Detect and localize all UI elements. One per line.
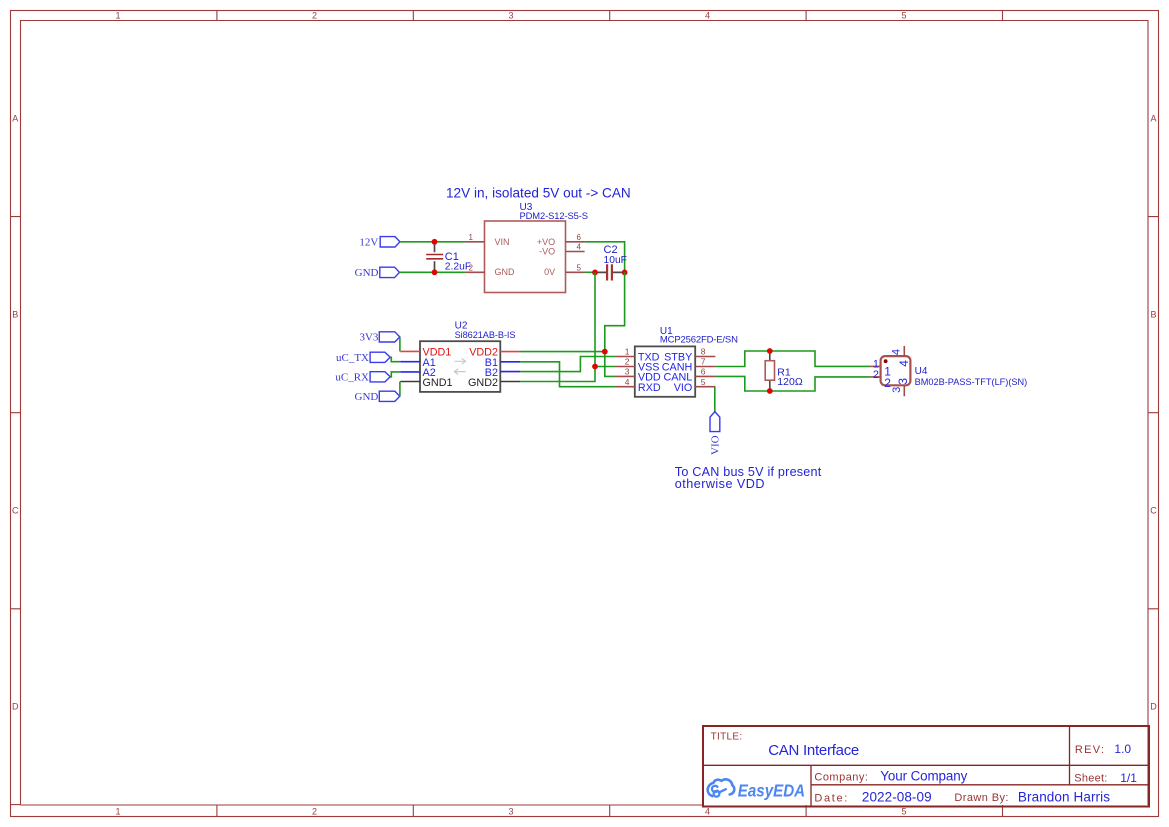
svg-text:Brandon Harris: Brandon Harris xyxy=(1018,790,1110,805)
svg-text:GND1: GND1 xyxy=(423,377,453,389)
svg-text:3: 3 xyxy=(508,11,513,21)
U2 direction arrows xyxy=(454,358,465,374)
svg-text:12V: 12V xyxy=(359,236,378,248)
svg-text:B: B xyxy=(12,310,18,320)
label U3 name xyxy=(520,202,588,221)
wire 12V to U3 pin1 xyxy=(400,241,466,243)
resistor R1 xyxy=(765,351,774,391)
connector U4 xyxy=(881,356,911,390)
wire U3 +VO to 5V rail xyxy=(585,242,625,273)
svg-text:4: 4 xyxy=(897,360,911,367)
port 12V xyxy=(359,236,400,248)
svg-text:3V3: 3V3 xyxy=(359,332,378,344)
label U4 name xyxy=(915,366,1028,387)
svg-text:0V: 0V xyxy=(544,267,555,277)
U1 pin 1 TXD xyxy=(615,347,635,357)
U4 pin 2 xyxy=(870,369,880,381)
svg-text:A: A xyxy=(1150,114,1156,124)
wire isolated ground rail (C2 left down to GND2/VSS) xyxy=(520,272,595,381)
svg-text:7: 7 xyxy=(701,357,706,367)
svg-text:GND: GND xyxy=(355,391,379,403)
svg-text:4: 4 xyxy=(577,243,582,252)
svg-text:2: 2 xyxy=(469,264,474,273)
U3 pin 6 xyxy=(566,233,585,242)
U1 pin 8 STBY xyxy=(695,347,715,357)
U1 pin 6 CANL xyxy=(695,367,715,377)
U2 pin VDD1 xyxy=(400,350,420,352)
port GND mid xyxy=(355,391,400,403)
U2 pin B2 xyxy=(500,371,520,373)
capacitor C1 xyxy=(426,242,443,272)
junction VDD rail xyxy=(602,349,608,355)
svg-text:VIN: VIN xyxy=(495,237,510,247)
svg-text:1/1: 1/1 xyxy=(1120,771,1137,785)
junction R1 bottom xyxy=(767,388,773,394)
svg-text:otherwise VDD: otherwise VDD xyxy=(675,477,765,491)
junction VSS xyxy=(592,364,598,370)
svg-text:C: C xyxy=(12,506,19,516)
svg-text:VIO: VIO xyxy=(674,382,693,394)
svg-text:120Ω: 120Ω xyxy=(777,376,803,388)
label U1 name xyxy=(660,326,738,345)
wire VIO to port xyxy=(714,387,716,412)
U2 pin B1 xyxy=(500,361,520,363)
U2 pin VDD2 xyxy=(500,351,520,353)
label R1 value xyxy=(777,366,803,388)
title block values xyxy=(768,742,1137,805)
wire uC_TX to A1 xyxy=(390,357,400,361)
svg-text:Sheet:: Sheet: xyxy=(1074,773,1107,785)
svg-text:GND: GND xyxy=(355,267,379,279)
port GND top xyxy=(355,267,400,279)
svg-text:5: 5 xyxy=(701,377,706,387)
svg-text:RXD: RXD xyxy=(638,382,661,394)
svg-text:Your Company: Your Company xyxy=(880,768,967,783)
wire B2 to TXD xyxy=(520,357,615,372)
port uC_RX xyxy=(335,372,390,384)
svg-text:BM02B-PASS-TFT(LF)(SN): BM02B-PASS-TFT(LF)(SN) xyxy=(915,377,1028,387)
svg-text:1.0: 1.0 xyxy=(1114,742,1131,756)
note: CAN bus annotation xyxy=(675,465,822,491)
U1 pin 5 VIO xyxy=(695,377,715,387)
svg-text:10uF: 10uF xyxy=(604,255,627,266)
dc-dc converter U3 xyxy=(485,221,566,293)
U2 pin A1 xyxy=(400,361,420,363)
wire GND to U3 pin2 xyxy=(400,271,466,273)
wire GND to GND1 xyxy=(399,382,401,397)
svg-text:-VO: -VO xyxy=(539,246,555,256)
svg-text:6: 6 xyxy=(577,233,582,242)
wire U3 0V to C2 xyxy=(585,271,595,273)
svg-text:2022-08-09: 2022-08-09 xyxy=(862,790,932,805)
svg-text:D: D xyxy=(12,702,19,712)
svg-text:3: 3 xyxy=(891,387,903,393)
svg-text:U4: U4 xyxy=(915,366,928,377)
svg-text:Si8621AB-B-IS: Si8621AB-B-IS xyxy=(455,330,516,340)
port uC_TX xyxy=(336,352,390,364)
svg-text:4: 4 xyxy=(705,807,710,817)
label C1 value xyxy=(445,251,471,272)
wire uC_RX to A2 xyxy=(390,372,400,377)
svg-text:2.2uF: 2.2uF xyxy=(445,262,471,273)
wire VDD2 to rail xyxy=(520,351,605,353)
U3 pin 5 xyxy=(566,264,585,273)
svg-text:12V in, isolated 5V out -> CAN: 12V in, isolated 5V out -> CAN xyxy=(446,185,631,200)
port VIO xyxy=(709,412,721,455)
svg-text:Drawn By:: Drawn By: xyxy=(954,792,1009,804)
svg-text:Company:: Company: xyxy=(814,771,868,783)
svg-text:EasyEDA: EasyEDA xyxy=(738,781,805,801)
label U2 name xyxy=(455,321,516,340)
svg-text:2: 2 xyxy=(312,807,317,817)
svg-text:Date:: Date: xyxy=(814,792,849,804)
title block xyxy=(703,726,1149,807)
svg-text:1: 1 xyxy=(115,807,120,817)
svg-text:uC_TX: uC_TX xyxy=(336,352,369,364)
svg-text:TITLE:: TITLE: xyxy=(711,731,743,742)
svg-text:2: 2 xyxy=(873,369,879,381)
svg-text:8: 8 xyxy=(701,347,706,357)
digital isolator U2 xyxy=(420,341,500,392)
wire 3V3 to VDD1 xyxy=(399,337,401,351)
U1 pin 7 CANH xyxy=(695,357,715,367)
svg-text:MCP2562FD-E/SN: MCP2562FD-E/SN xyxy=(660,334,738,345)
svg-text:2: 2 xyxy=(625,357,630,367)
U1 pin 3 VDD xyxy=(615,367,635,377)
svg-text:6: 6 xyxy=(701,367,706,377)
port 3V3 xyxy=(359,332,399,344)
capacitor C2 xyxy=(595,264,625,280)
title block labels xyxy=(711,731,1108,804)
svg-text:4: 4 xyxy=(890,349,902,355)
svg-text:B: B xyxy=(1150,310,1156,320)
junction C2 left xyxy=(592,270,598,276)
junction C2 right xyxy=(622,270,628,276)
svg-text:3: 3 xyxy=(896,378,910,385)
junction R1 top xyxy=(767,348,773,354)
svg-text:REV:: REV: xyxy=(1075,744,1105,756)
svg-text:C: C xyxy=(1150,506,1157,516)
U3 pin 2 xyxy=(466,264,485,273)
svg-text:5: 5 xyxy=(577,264,582,273)
label C2 value xyxy=(604,244,627,266)
svg-text:5: 5 xyxy=(901,11,906,21)
U4 pin 1 xyxy=(870,358,880,370)
U3 pin 4 xyxy=(566,243,585,252)
wire CANH to R1 top and U4 pin1 xyxy=(715,351,870,367)
wire VSS tap xyxy=(595,366,615,368)
svg-text:4: 4 xyxy=(625,377,630,387)
wire isolated 5V rail (C2 right down to VDD2/VDD) xyxy=(605,272,625,376)
U2 pin GND2 xyxy=(500,381,520,383)
svg-text:5: 5 xyxy=(901,807,906,817)
svg-text:GND: GND xyxy=(495,267,516,277)
svg-text:CAN Interface: CAN Interface xyxy=(768,742,859,759)
svg-text:1: 1 xyxy=(469,233,474,242)
junction C1 top xyxy=(432,239,438,245)
U3 pin 1 xyxy=(466,233,485,242)
svg-text:PDM2-S12-S5-S: PDM2-S12-S5-S xyxy=(520,210,588,221)
U2 pin A2 xyxy=(400,371,420,373)
svg-text:1: 1 xyxy=(115,11,120,21)
note: schematic heading text xyxy=(446,185,631,200)
wire B1 to RXD xyxy=(520,362,615,387)
svg-text:VIO: VIO xyxy=(709,435,721,455)
U1 pin 4 RXD xyxy=(615,377,635,387)
svg-text:D: D xyxy=(1150,702,1157,712)
U4 pin 3 xyxy=(891,385,905,396)
CAN transceiver U1 xyxy=(635,346,695,396)
svg-text:4: 4 xyxy=(705,11,710,21)
svg-text:3: 3 xyxy=(625,367,630,377)
svg-text:1: 1 xyxy=(625,347,630,357)
svg-text:2: 2 xyxy=(312,11,317,21)
svg-text:A: A xyxy=(12,114,18,124)
wire CANL to R1 bottom and U4 pin2 xyxy=(715,376,870,391)
svg-text:uC_RX: uC_RX xyxy=(335,372,369,384)
junction C1 bottom xyxy=(432,269,438,275)
svg-text:GND2: GND2 xyxy=(468,377,498,389)
EasyEDA logo xyxy=(708,779,805,800)
U1 pin 2 VSS xyxy=(615,357,635,367)
U2 pin GND1 xyxy=(400,381,420,383)
svg-text:3: 3 xyxy=(508,807,513,817)
U4 pin 4 xyxy=(890,346,904,356)
